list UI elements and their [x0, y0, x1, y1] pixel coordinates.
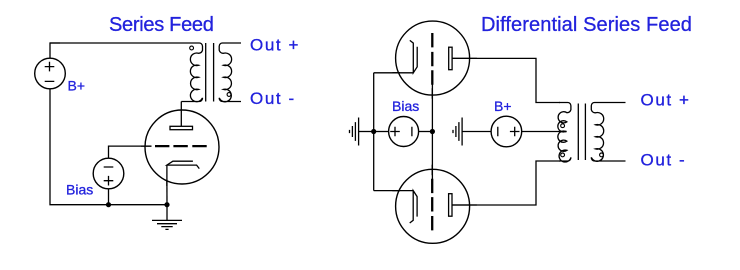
cathode — [167, 161, 199, 168]
triode tube V1 (left circuit) — [145, 110, 219, 184]
grid wire between tubes — [431, 85, 433, 180]
ground G1 (rotated, at cathode rail) — [350, 118, 374, 146]
phase dot T1 primary — [190, 46, 194, 50]
phase dot T1 secondary — [227, 93, 231, 97]
wire B+ top to transformer primary — [50, 43, 60, 58]
transformer T1 core — [206, 43, 214, 102]
wire B+ to transformer center tap — [522, 131, 567, 133]
voltage source B+ (left circuit) — [35, 58, 66, 89]
wire top tube plate to transformer — [453, 58, 561, 102]
junction dot grid node — [430, 129, 435, 134]
svg-text:Bias: Bias — [392, 98, 419, 114]
wire bias right lead to grid node — [419, 131, 433, 133]
triode tube V2 (top) — [392, 33, 477, 99]
wire Bias bottom to rail — [108, 189, 110, 205]
plate lead — [180, 102, 182, 127]
transformer T2 primary winding upper half — [558, 103, 571, 132]
svg-text:Bias: Bias — [66, 182, 93, 198]
tube V3 envelope — [396, 169, 470, 243]
phase dot T2 secondary — [600, 153, 604, 157]
junction dot at cathode/rail — [164, 202, 169, 207]
svg-text:Differential Series Feed: Differential Series Feed — [481, 14, 692, 36]
cathode lead stub — [166, 165, 168, 186]
svg-text:Out +: Out + — [250, 36, 300, 55]
transformer T1 secondary winding — [219, 43, 241, 102]
grid stub — [141, 145, 152, 147]
voltage source B+ (right circuit) — [491, 116, 522, 147]
tube V2 envelope — [396, 21, 470, 95]
plate (anode) — [170, 126, 193, 129]
svg-text:Out -: Out - — [641, 150, 687, 169]
ground G2 (rotated, at B+ negative) — [453, 118, 491, 146]
svg-text:Series Feed: Series Feed — [109, 14, 214, 36]
wire B+ bottom to ground rail — [50, 89, 167, 205]
wire bias left lead — [374, 131, 389, 133]
grid (dashed) — [155, 145, 207, 147]
transformer T2 primary winding lower half — [558, 131, 571, 162]
transformer T2 core — [578, 104, 585, 161]
transformer T1 primary winding — [50, 43, 203, 102]
svg-text:Out -: Out - — [250, 89, 296, 108]
voltage source Bias (right circuit) — [389, 117, 419, 147]
phase dot T2 primary lower — [561, 153, 565, 157]
junction dot at Bias/rail — [106, 202, 111, 207]
cathode wire to rail — [166, 180, 168, 205]
wire Bias top to tube grid — [109, 146, 152, 158]
svg-text:B+: B+ — [494, 98, 512, 114]
ground (left circuit) — [152, 205, 182, 230]
wire bottom tube plate to transformer — [453, 161, 561, 205]
left cathode rail wire — [374, 73, 400, 191]
junction dot cathode rail / bias — [371, 129, 376, 134]
svg-text:B+: B+ — [68, 77, 86, 93]
phase dot T2 primary upper — [561, 124, 565, 128]
triode tube V3 (bottom) — [392, 165, 477, 231]
svg-text:Out +: Out + — [641, 90, 691, 109]
voltage source Bias (left circuit) — [93, 158, 124, 189]
transformer T2 secondary winding — [591, 103, 625, 162]
